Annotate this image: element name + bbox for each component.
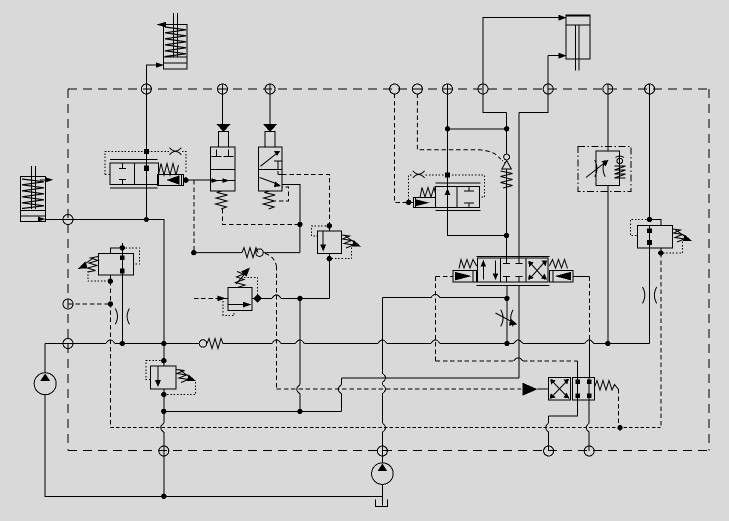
valve V4 body xyxy=(478,258,549,282)
port circle (270.1,89) xyxy=(265,84,275,94)
valve SV2 bottom cell diagonal arrow xyxy=(260,178,278,185)
spring line y=252.6 to valve port x=300 xyxy=(194,224,300,252)
relief RV1 pilot dotted right xyxy=(122,248,139,264)
orifice symbol on V3 pilot xyxy=(413,171,425,178)
port circle (548.2,89) xyxy=(543,84,553,94)
valve DV1 left cell blocked port T bottom xyxy=(119,180,126,185)
relief RV2 outlet down xyxy=(163,389,165,496)
node dot (122.3,247.9) xyxy=(120,246,124,250)
node dot (163.8,411.4) xyxy=(162,409,166,413)
node dot (329.3,258.7) xyxy=(327,257,331,261)
valve DV1 pilot box xyxy=(157,175,183,186)
valve V3 spring xyxy=(420,188,435,198)
valve SV2 top cell blocked T xyxy=(274,161,282,169)
port circle (146.4,89) xyxy=(141,84,151,94)
solenoid SV1 box xyxy=(219,132,229,147)
flow control FC1 inner box xyxy=(596,151,620,185)
PRV1 pilot dotted from outlet to spring xyxy=(243,277,258,295)
FC1 variable throttle arcs xyxy=(595,160,606,177)
port circle (68,304) on left border xyxy=(63,299,73,309)
orifice on RV4 line xyxy=(643,287,657,303)
port circle (649.6,89) xyxy=(645,84,655,94)
main pressure bus wire y=343.5 from pump P1 to right corner xyxy=(45,343,649,345)
accumulator A2 spring xyxy=(22,179,44,209)
valve SV2 port wire to relief RV3 (dashed) xyxy=(282,174,329,225)
valve SV2 bottom cell port stub xyxy=(278,171,282,174)
wire B-line x=518.9 down to valve V4 xyxy=(518,112,520,263)
relief RV3 outlet down to y=298 wire xyxy=(328,254,330,299)
node dot (110.4,304) xyxy=(108,302,112,306)
node dot (163.8,394.5) xyxy=(162,392,166,396)
node dot (185.4,180.2) xyxy=(184,178,188,182)
valve DV1 bottom rail xyxy=(110,187,157,189)
valve V4 dividers xyxy=(500,258,526,282)
valve DV1 cell divider xyxy=(134,163,136,185)
port circle (68,343.5) on left border xyxy=(63,339,73,349)
accumulator A1 piston lines xyxy=(164,57,187,63)
PRV1 drain dotted below xyxy=(223,301,234,315)
node dot (506.6,128.8) xyxy=(504,127,508,131)
valve V5 right cell through lines with port marks xyxy=(578,378,590,401)
node dot bus x=164 xyxy=(162,341,166,345)
node dot (300,298) xyxy=(298,296,302,300)
flow control FC1 outer dash-dot box xyxy=(578,146,631,191)
wire hop arcs on bus xyxy=(106,340,594,344)
PRV1 outlet wire xyxy=(252,297,258,299)
port circle (222.5,89) xyxy=(218,84,228,94)
valve SV2 divider xyxy=(258,168,282,170)
port circle (548,451) on bottom border xyxy=(544,446,554,456)
valve DV1 pilot port wire to 2/2 valves xyxy=(183,179,210,181)
cylinder C1 top port arrow xyxy=(558,15,566,21)
wire from port circle 146 down into valve DV1 xyxy=(145,85,147,164)
valve V4 left pilot dashed stub xyxy=(436,275,454,277)
relief valve RV2 (lower left) inlet from bus xyxy=(163,344,165,367)
port circle (394.6,89) xyxy=(390,84,400,94)
valve V3 divider xyxy=(456,186,458,207)
enclosure dashed border left xyxy=(67,89,69,451)
wire RV1 line to bus xyxy=(121,306,123,344)
node dot bus x=507 xyxy=(505,341,509,345)
accumulator A2 bottom port arrow xyxy=(38,217,46,222)
valve V4 left solenoid arrow xyxy=(455,272,472,281)
cylinder C1 head line xyxy=(566,16,590,25)
valve DV1 right cell flow marker xyxy=(144,165,149,171)
relief RV2 internal line w/ down arrow xyxy=(157,366,159,381)
pilot dashed to check CV1 from circle 417 xyxy=(417,94,499,158)
tank symbol xyxy=(376,500,388,507)
relief RV3 spring arrow xyxy=(344,235,356,244)
wire x=342 with hop over y=389 xyxy=(340,378,342,412)
port circle (382,451) on bottom border xyxy=(377,446,387,456)
accumulator A2 piston lines xyxy=(20,211,45,217)
relief RV3 spring xyxy=(342,235,354,248)
wire V4 A-port down through orifice to bus xyxy=(506,285,508,343)
FC1 throttle arrow xyxy=(586,163,605,178)
relief RV1 spring xyxy=(88,257,99,273)
relief RV4 inlet stub xyxy=(650,220,661,226)
PRV1 spring xyxy=(236,272,246,288)
relief RV2 pilot dotted from spring xyxy=(166,382,196,395)
cylinder C1 piston rod xyxy=(576,25,580,70)
accumulator A1 piston rod xyxy=(173,13,177,57)
valve V5 (bottom right 2-pos) body left cell xyxy=(548,378,570,401)
valve DV1 left cell blocked port T top xyxy=(119,163,126,168)
pilot dashed line y=361 (to valve V5 top) xyxy=(436,276,578,361)
pump P1 suction line to tank xyxy=(45,395,382,497)
valve SV1 body xyxy=(210,147,235,191)
PRV1 spring arrow xyxy=(236,271,248,284)
valve SV1 bottom cell through line w/ arrows xyxy=(210,180,235,182)
valve V5 tank wires down to border circles xyxy=(549,400,578,451)
valve DV1 body xyxy=(110,163,158,185)
wire x=506.6 down through check CV1 to valve V4 xyxy=(506,112,508,263)
valve SV2 body xyxy=(258,147,282,191)
relief RV4 spring arrow xyxy=(675,230,687,239)
pilot dashed from DV1 port down x=193.8 xyxy=(193,180,195,252)
valve V4 left cell parallel arrows xyxy=(482,261,484,280)
check valve CV1 spring xyxy=(501,171,513,188)
node dot (164,496.3) xyxy=(162,494,166,498)
relief RV4 through line xyxy=(649,226,651,249)
solenoid SV1 arrow xyxy=(216,124,230,132)
relief RV1 internal flow markers xyxy=(120,255,125,260)
node dot bus x=122 xyxy=(120,341,124,345)
relief RV4 pilot dotted from spring xyxy=(663,242,683,254)
node dot (146.4,219.5) xyxy=(144,218,148,222)
valve V4 right cell crossed arrows xyxy=(529,262,545,280)
check valve CV1 seat (hollow up arrow) xyxy=(502,161,512,170)
valve V5 left cell crossed arrows xyxy=(552,381,567,397)
port circle (483,89) xyxy=(478,84,488,94)
accumulator A1 spring xyxy=(165,27,186,57)
node dot (299.9,224.4) xyxy=(298,222,302,226)
orifice symbol on DV1 pilot xyxy=(170,148,182,155)
relief RV3 body xyxy=(317,231,341,253)
FC1 bypass check ball xyxy=(617,158,623,164)
enclosure dashed border bottom xyxy=(68,450,709,452)
relief RV1 spring arrow xyxy=(82,258,94,267)
node diamond (257.7,298.4) xyxy=(253,294,262,303)
node dot (506.6,235.5) xyxy=(504,233,508,237)
PRV1 body xyxy=(228,287,252,310)
valve DV1 outlet wire down and over to bus xyxy=(146,185,163,344)
valve V4 left spring xyxy=(459,260,477,269)
port circle (607.8,89) xyxy=(603,84,613,94)
accumulator A2 (left spring cylinder) body xyxy=(20,177,45,222)
port circle (590,451) on bottom border xyxy=(584,446,594,456)
wire from port circle 649.6 down to relief RV4 xyxy=(649,85,651,220)
solenoid SV2 box xyxy=(265,132,275,147)
solenoid valve SV2 (right 3/2) stem xyxy=(269,85,271,125)
valve SV1 spring drain dashed xyxy=(223,209,300,224)
valve DV1 dotted pilot box xyxy=(105,151,186,174)
wire y=411.4 xyxy=(164,410,342,412)
relief valve RV1 (left) body xyxy=(98,253,133,275)
accumulator A2 top-right arrow xyxy=(40,179,46,181)
node dot drain x=620 xyxy=(618,426,622,430)
enclosure dashed border top bus xyxy=(68,88,709,90)
wire from left border circle to drain (dashed) xyxy=(68,303,110,305)
relief RV1 inlet stub xyxy=(110,248,122,254)
valve DV1 top rail xyxy=(110,159,157,161)
valve V3 left cell up arrow on line xyxy=(445,189,451,196)
node dot (660.8,253) xyxy=(659,251,663,255)
valve V5 spring right xyxy=(595,381,619,391)
relief RV4 drain dashed down to drain bus corner xyxy=(660,253,662,428)
orifice on RV1 line xyxy=(115,309,129,325)
valve SV1 divider xyxy=(210,168,235,170)
valve V3 pilot arrow xyxy=(416,199,430,206)
PRV1 inlet arrow xyxy=(218,296,227,302)
pilot dashed vertical x=276.5 from spring line xyxy=(265,254,277,267)
relief RV4 internal flow markers xyxy=(647,228,652,233)
enclosure dashed border right xyxy=(708,89,710,451)
valve SV2 port wire solid down x=300 xyxy=(282,185,300,225)
pump P1 xyxy=(34,373,56,395)
valve DV1 pilot arrow xyxy=(167,175,180,185)
relief RV1 outlet stub xyxy=(109,275,111,281)
port circle (417.4,89) xyxy=(412,84,422,94)
wire A-line from circle 483 down and over xyxy=(483,85,507,113)
wire V4 B-port down to tank link xyxy=(518,285,520,377)
wire cylinder bottom port via circle 548 xyxy=(519,56,558,113)
wire from port circle 608 through FC1 down to bus xyxy=(607,85,609,344)
accumulator A1 bottom port arrow xyxy=(156,62,164,68)
valve V4 center cell blocked stubs xyxy=(503,258,522,263)
node dot (193.8,252.6) xyxy=(192,250,196,254)
valve V5 body right cell xyxy=(572,378,594,401)
valve V4 right solenoid box xyxy=(550,270,574,282)
relief RV4 pilot dotted left xyxy=(631,220,650,236)
valve SV2 spring xyxy=(263,191,275,209)
pilot arrow into V5 xyxy=(523,383,538,396)
valve V3 (mid right, pilot operated 2-pos) top rail xyxy=(435,182,480,184)
valve V3 dotted pilot box xyxy=(409,175,485,200)
valve V3 pilot box xyxy=(413,198,435,208)
valve V4 (central 4/3) top rail xyxy=(477,255,550,257)
valve SV2 spring drain dashed loop xyxy=(272,187,289,201)
valve V3 right cell blocked T bottom xyxy=(464,203,474,208)
wire x=300 down from reducing valve line xyxy=(299,298,301,411)
valve DV1 right cell through line xyxy=(145,163,147,185)
valve V4 right pilot wire to dashed drop xyxy=(573,275,589,277)
accumulator A2 piston rod xyxy=(31,166,35,209)
relief RV2 body xyxy=(151,366,176,389)
wire x=589.3 into valve V5 xyxy=(588,339,590,378)
relief RV3 pilot dotted left xyxy=(312,226,330,236)
FC1 bypass spring xyxy=(615,166,626,178)
tank return wire y=377.8 xyxy=(341,377,519,379)
cylinder C1 bottom port arrow xyxy=(558,53,566,59)
wire A1 port to bus circle xyxy=(146,65,163,84)
valve V3 body xyxy=(435,186,479,207)
valve V4 left solenoid box xyxy=(453,270,477,282)
node dot (300,411.4) xyxy=(298,409,302,413)
wire RV4 line down to bus corner xyxy=(648,248,651,344)
cylinder C1 (top right) body xyxy=(566,15,590,59)
drain bus dashed y=427.7 xyxy=(110,427,660,429)
wire x=382.4 pump P2 riser with hops xyxy=(381,298,383,463)
valve SV1 top cell blocked ports xyxy=(212,150,234,157)
inline spring symbol on bus xyxy=(199,340,207,348)
valve V3 bottom rail xyxy=(435,210,480,212)
relief RV2 pilot dotted left xyxy=(146,361,164,380)
relief RV4 spring xyxy=(673,229,685,242)
valve V3 right cell blocked T top xyxy=(464,186,474,191)
wire A2 port to left border circle and to valve DV1 drop xyxy=(46,219,147,221)
valve V4 right solenoid arrow xyxy=(555,272,572,281)
valve V5 spring drain dashed xyxy=(617,389,619,428)
relief RV1 pilot dotted from spring to drain xyxy=(88,271,108,281)
port circle (447.5,89) xyxy=(443,84,453,94)
rung wire y=128.8 xyxy=(448,128,507,130)
valve V3 pilot dashed from port circle 394.6 xyxy=(395,94,406,203)
relief RV4 outlet stub xyxy=(660,248,662,253)
valve SV2 top cell diagonal arrow xyxy=(260,154,276,167)
relief valve RV3 (center) inlet dot xyxy=(327,224,331,228)
variable orifice VO1 below V4 xyxy=(501,310,513,327)
node dot (649.6,219.5) xyxy=(647,217,651,221)
relief RV3 pilot dotted from spring xyxy=(332,248,352,259)
relief RV4 body xyxy=(638,226,673,249)
relief RV2 spring xyxy=(176,370,189,383)
PRV1 internal line w/ arrow xyxy=(228,304,244,306)
relief RV2 spring arrow xyxy=(179,370,191,379)
wire from V3 bottom to check line xyxy=(448,85,507,236)
node dot bus x=608 xyxy=(606,341,610,345)
valve SV1 spring xyxy=(216,191,228,209)
node dot (447.5,175) xyxy=(445,173,450,178)
node dot (186,179.5) merge xyxy=(185,177,187,180)
node dot (146.4,151.3) xyxy=(144,149,149,154)
node dot (163.8,360.7) xyxy=(162,359,166,363)
relief RV1 drain dashed down to drain bus xyxy=(109,281,111,428)
check valve CV1 poppet ball xyxy=(504,154,510,160)
relief RV3 internal line w/ down arrow xyxy=(322,231,324,245)
pump P2 xyxy=(372,463,394,485)
valve DV1 spring xyxy=(159,164,179,176)
wire y=298 right segment (P2 to A-line) xyxy=(382,297,507,299)
relief RV1 through line xyxy=(121,243,123,306)
accumulator A1 top-left arrow xyxy=(157,22,167,28)
solenoid SV2 arrow xyxy=(263,124,277,132)
accumulator A1 (top left spring cylinder) body xyxy=(164,25,187,69)
node dot (507,298) xyxy=(505,296,509,300)
inline spring symbol on y=252.6 xyxy=(242,248,258,258)
valve V4 right spring xyxy=(549,260,567,269)
node dot (447.5,128.8) xyxy=(445,127,449,131)
node dot (408.7,202.4) xyxy=(407,200,411,204)
wire y=298 left segment: reducing valve outlet to relief RV3 xyxy=(252,297,329,299)
solenoid valve SV1 (left 2/2) stem from port circle xyxy=(222,85,224,125)
port circle (164,451) on bottom border xyxy=(159,446,169,456)
port circle (68,219.5) on left border xyxy=(63,215,73,225)
valve V4 bottom rail xyxy=(477,284,550,286)
pilot dashed line y=389.2 to valve V5 xyxy=(277,388,522,390)
wire cylinder top port from port circle 483 xyxy=(483,18,558,85)
pressure reducing valve PRV1 inlet dashed xyxy=(194,297,216,299)
node dot (110.4,281.2) xyxy=(108,279,112,283)
